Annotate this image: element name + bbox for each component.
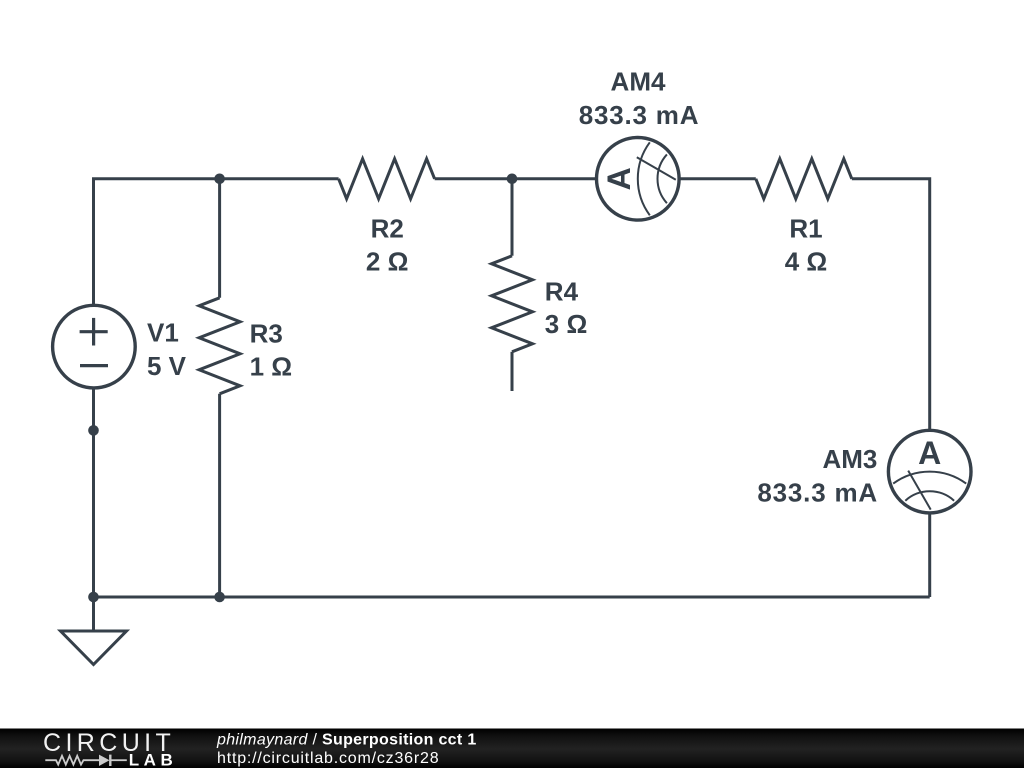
junction node V1 negative lead — [88, 425, 99, 436]
svg-text:A: A — [918, 435, 941, 471]
resistor R2 — [339, 159, 435, 199]
wire top rail left segment — [94, 179, 339, 305]
svg-text:3 Ω: 3 Ω — [545, 309, 588, 339]
wire R4 branch top lead — [511, 179, 514, 256]
svg-text:philmaynard / Superposition cc: philmaynard / Superposition cct 1 — [216, 732, 477, 749]
wire R3 branch top lead — [218, 179, 221, 298]
resistor R4 — [492, 256, 533, 352]
wire top rail middle segment — [435, 177, 596, 180]
wire AM3 bottom to bottom rail — [928, 513, 931, 598]
svg-text:R3: R3 — [250, 318, 283, 348]
footer bar — [0, 729, 1024, 768]
junction node top-left (R3 tap) — [214, 174, 225, 185]
wire bottom rail — [94, 596, 930, 599]
svg-text:833.3 mA: 833.3 mA — [757, 477, 878, 507]
svg-text:http://circuitlab.com/cz36r28: http://circuitlab.com/cz36r28 — [217, 750, 439, 767]
voltage source V1 — [53, 305, 136, 388]
wire left rail V1 bottom to bottom rail — [92, 388, 95, 597]
svg-text:V1: V1 — [147, 318, 179, 348]
svg-text:4 Ω: 4 Ω — [785, 247, 828, 277]
svg-text:LAB: LAB — [129, 751, 177, 768]
svg-text:R2: R2 — [371, 213, 404, 243]
ammeter AM4 — [597, 138, 680, 221]
svg-text:R1: R1 — [789, 213, 822, 243]
svg-text:1 Ω: 1 Ω — [250, 352, 293, 382]
ammeter AM3 — [888, 430, 971, 513]
resistor R3 — [199, 298, 240, 394]
ground triangle — [61, 631, 127, 665]
wire R4 open stub — [511, 352, 514, 391]
svg-text:R4: R4 — [545, 276, 579, 306]
logo resistor-diode mark — [45, 755, 127, 766]
svg-text:833.3 mA: 833.3 mA — [579, 100, 700, 130]
junction node R4 tap — [507, 174, 518, 185]
resistor R1 — [756, 159, 852, 199]
wire top-right corner down to AM3 — [852, 179, 930, 431]
svg-text:AM3: AM3 — [822, 444, 877, 474]
ground stem — [92, 597, 95, 631]
svg-text:5 V: 5 V — [147, 351, 187, 381]
wire top rail right segment — [680, 177, 756, 180]
wire R3 branch bottom lead — [218, 394, 221, 597]
svg-text:A: A — [601, 167, 637, 190]
junction node R3 bottom — [214, 592, 225, 603]
svg-text:2 Ω: 2 Ω — [366, 247, 409, 277]
junction node bottom-left (ground) — [88, 592, 99, 603]
svg-text:AM4: AM4 — [611, 67, 666, 97]
